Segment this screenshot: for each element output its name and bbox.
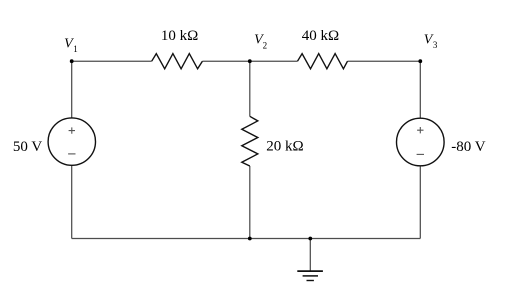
resistor R1 10k zigzag [152, 54, 203, 69]
voltage source V -80V circle [397, 118, 445, 166]
minus sign of -80V source [417, 153, 424, 155]
svg-text:2: 2 [263, 41, 268, 51]
node V1 dot [70, 59, 74, 63]
junction dot ground node [308, 237, 312, 241]
node V2 label [254, 33, 267, 51]
wire V2 down to R 20k top [249, 61, 251, 116]
wire R 40k to node V3 [348, 60, 421, 62]
plus sign of 50V source [69, 127, 75, 133]
resistor R2 40k zigzag [298, 54, 348, 69]
svg-text:10 kΩ: 10 kΩ [161, 28, 198, 44]
svg-text:40 kΩ: 40 kΩ [302, 28, 339, 44]
svg-text:20 kΩ: 20 kΩ [266, 139, 303, 155]
node V1 label [64, 37, 78, 55]
node V3 label [424, 32, 438, 50]
svg-text:3: 3 [433, 40, 438, 50]
wire R 20k bottom to bottom rail [249, 166, 251, 239]
wire source -80V bottom to bottom rail [419, 166, 421, 239]
wire node V2 to R 40k [250, 60, 298, 62]
svg-text:1: 1 [73, 44, 78, 54]
node V2 dot [248, 59, 252, 63]
junction dot bottom of 20k [248, 237, 252, 241]
wire top-left: V1 to R 10k [72, 60, 152, 62]
resistor R3 20k zigzag (vertical) [242, 116, 258, 166]
wire V3 down to source -80V top [419, 61, 421, 118]
wire V1 down to source 50V top [71, 61, 73, 118]
ground symbol [297, 271, 323, 280]
wire ground stem [309, 239, 311, 271]
minus sign of 50V source [68, 153, 75, 155]
wire bottom rail [72, 238, 421, 240]
svg-text:50 V: 50 V [13, 139, 42, 155]
voltage source V 50V circle [48, 118, 95, 165]
plus sign of -80V source [417, 127, 423, 133]
wire R 10k to node V2 [202, 60, 249, 62]
node V3 dot [418, 59, 422, 63]
wire source 50V bottom to bottom rail [71, 165, 73, 238]
svg-text:-80 V: -80 V [451, 139, 485, 155]
